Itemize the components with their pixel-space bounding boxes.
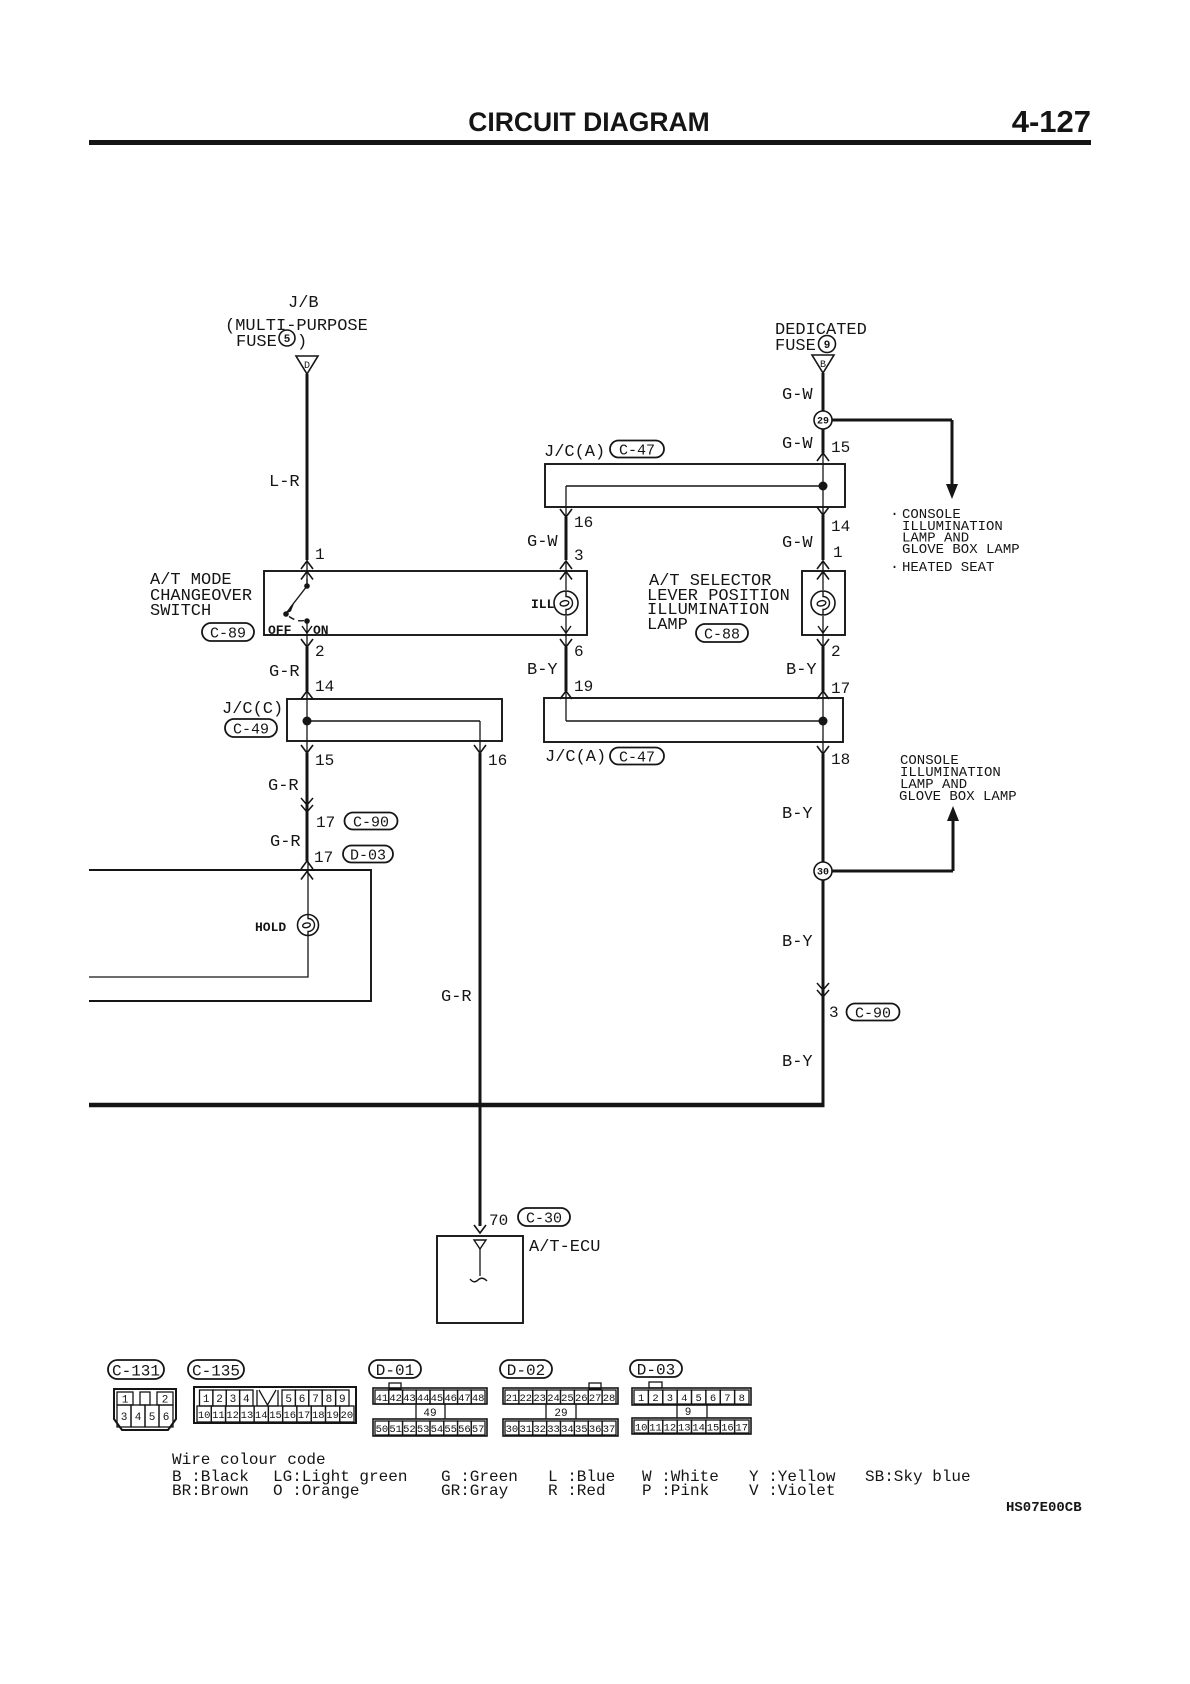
svg-text:4: 4 <box>135 1412 142 1424</box>
junction dot in lower J/C(A) <box>819 717 828 726</box>
svg-text:HEATED SEAT: HEATED SEAT <box>902 560 994 576</box>
svg-text:·: · <box>890 506 899 523</box>
svg-text:16: 16 <box>721 1422 734 1434</box>
svg-text:45: 45 <box>431 1393 444 1405</box>
svg-text:GLOVE BOX LAMP: GLOVE BOX LAMP <box>902 542 1020 558</box>
svg-text:17: 17 <box>298 1410 311 1422</box>
svg-text:34: 34 <box>561 1424 574 1436</box>
svg-text:35: 35 <box>575 1424 588 1436</box>
inline connector marks C-90/D-03 on G-R wire <box>301 798 313 805</box>
svg-text:51: 51 <box>389 1424 402 1436</box>
svg-text:20: 20 <box>341 1410 354 1422</box>
wire G-R long run to A/T-ECU pin 70 <box>479 753 482 1226</box>
svg-text:42: 42 <box>389 1393 402 1405</box>
connector label D-02 <box>500 1360 552 1378</box>
component box with HOLD lamp (partial) <box>89 870 371 1001</box>
lamp bulb C-88 <box>811 591 835 615</box>
svg-text:1: 1 <box>315 546 325 564</box>
svg-text:7: 7 <box>724 1393 730 1405</box>
svg-text:6: 6 <box>163 1412 170 1424</box>
ECU box A/T-ECU <box>437 1236 523 1323</box>
svg-text:10: 10 <box>198 1410 211 1422</box>
wire B-Y from pin 18 to junction 30 <box>822 754 825 862</box>
svg-text:6: 6 <box>299 1394 306 1406</box>
svg-text:B: B <box>820 360 826 371</box>
svg-text:CIRCUIT DIAGRAM: CIRCUIT DIAGRAM <box>468 107 709 137</box>
svg-text:C-90: C-90 <box>855 1005 891 1022</box>
svg-text:14: 14 <box>315 678 334 696</box>
svg-text:D-01: D-01 <box>376 1362 414 1380</box>
fuse tap triangle D <box>296 356 318 374</box>
svg-text:V :Violet: V :Violet <box>749 1482 835 1500</box>
svg-text:17: 17 <box>831 680 850 698</box>
connector C-131 body <box>114 1389 176 1430</box>
svg-text:G-R: G-R <box>269 663 300 682</box>
junction circle 30 <box>814 862 832 880</box>
svg-text:C-135: C-135 <box>192 1362 240 1380</box>
svg-text:26: 26 <box>575 1393 588 1405</box>
svg-text:8: 8 <box>326 1394 333 1406</box>
svg-text:16: 16 <box>488 752 507 770</box>
svg-text:49: 49 <box>423 1408 436 1420</box>
svg-text:21: 21 <box>506 1393 519 1405</box>
lamp ILL bulb <box>554 591 578 615</box>
circled number 9 <box>819 336 836 353</box>
svg-text:FUSE: FUSE <box>236 333 277 352</box>
svg-text:J/C(A): J/C(A) <box>544 443 605 462</box>
svg-text:B-Y: B-Y <box>782 933 813 952</box>
svg-text:16: 16 <box>283 1410 296 1422</box>
pin 70 of C-30 at A/T-ECU <box>474 1225 486 1233</box>
connector label D-01 <box>369 1360 421 1378</box>
connector label C-89 <box>202 623 254 641</box>
svg-text:16: 16 <box>574 514 593 532</box>
svg-text:43: 43 <box>403 1393 416 1405</box>
svg-text:56: 56 <box>458 1424 471 1436</box>
svg-text:23: 23 <box>533 1393 546 1405</box>
svg-text:C-88: C-88 <box>704 626 740 643</box>
svg-text:10: 10 <box>635 1422 648 1434</box>
junction circle 29 <box>814 411 832 429</box>
svg-text:LAMP: LAMP <box>647 616 688 635</box>
wire thick bus line to left edge <box>89 1103 825 1108</box>
svg-text:C-47: C-47 <box>619 749 655 766</box>
svg-text:11: 11 <box>212 1410 225 1422</box>
svg-text:17: 17 <box>736 1422 749 1434</box>
svg-text:3: 3 <box>574 547 584 565</box>
pin 15 of C-49 <box>301 745 313 753</box>
connector D-01 body <box>389 1383 401 1389</box>
switch contacts and blade <box>306 579 308 586</box>
svg-text:13: 13 <box>678 1422 691 1434</box>
pin 2 of C-89 <box>301 639 313 647</box>
svg-text:9: 9 <box>824 340 831 352</box>
svg-text:G-R: G-R <box>270 833 301 852</box>
svg-text:C-49: C-49 <box>233 721 269 738</box>
svg-text:15: 15 <box>315 752 334 770</box>
svg-text:12: 12 <box>664 1422 677 1434</box>
wire G-R switch pin2 to J/C(C) pin 14 <box>306 647 309 691</box>
svg-text:FUSE: FUSE <box>775 337 816 356</box>
connector label D-03 <box>630 1360 682 1377</box>
svg-text:31: 31 <box>520 1424 533 1436</box>
pin 16 of C-49 <box>474 745 486 753</box>
svg-text:15: 15 <box>707 1422 720 1434</box>
svg-text:47: 47 <box>458 1393 471 1405</box>
lamp A/T SELECTOR LEVER POSITION ILLUMINATION LAMP (C-88) box <box>802 571 845 635</box>
svg-text:53: 53 <box>417 1424 430 1436</box>
svg-text:46: 46 <box>444 1393 457 1405</box>
svg-text:GLOVE BOX LAMP: GLOVE BOX LAMP <box>899 789 1017 805</box>
svg-text:27: 27 <box>589 1393 602 1405</box>
svg-text:17: 17 <box>316 814 335 832</box>
wire L-R from fuse D to switch pin 1 <box>306 374 309 560</box>
svg-text:3: 3 <box>667 1393 673 1405</box>
pin 14 of C-47 <box>817 507 829 515</box>
svg-text:70: 70 <box>489 1212 508 1230</box>
svg-text:18: 18 <box>831 751 850 769</box>
wire G-R down from J/C(C) pin 15 <box>306 753 309 861</box>
fuse tap triangle B <box>812 355 834 373</box>
wire B-Y from 30 down to bus <box>822 880 825 1105</box>
svg-text:15: 15 <box>831 439 850 457</box>
svg-text:HOLD: HOLD <box>255 920 286 935</box>
connector label C-47 <box>610 441 664 458</box>
svg-text:22: 22 <box>520 1393 533 1405</box>
svg-text:C-89: C-89 <box>210 625 246 642</box>
svg-text:30: 30 <box>506 1424 519 1436</box>
svg-text:GR:Gray: GR:Gray <box>441 1482 509 1500</box>
svg-text:4-127: 4-127 <box>1012 104 1091 139</box>
svg-text:14: 14 <box>255 1410 268 1422</box>
svg-text:B-Y: B-Y <box>782 805 813 824</box>
svg-text:1: 1 <box>203 1394 210 1406</box>
svg-text:A/T-ECU: A/T-ECU <box>529 1238 600 1257</box>
svg-text:C-90: C-90 <box>353 814 389 831</box>
lamp HOLD bulb <box>298 915 319 936</box>
svg-text:J/C(A): J/C(A) <box>545 748 606 767</box>
svg-text:): ) <box>297 333 307 352</box>
svg-text:G-W: G-W <box>527 533 558 552</box>
svg-text:29: 29 <box>554 1408 567 1420</box>
connector C-135 body <box>194 1387 356 1423</box>
svg-text:9: 9 <box>339 1394 346 1406</box>
svg-text:4: 4 <box>243 1394 250 1406</box>
wire B-Y ILL lamp to J/C(A) pin 19 <box>565 647 568 691</box>
svg-text:C-47: C-47 <box>619 442 655 459</box>
svg-text:5: 5 <box>284 334 291 346</box>
svg-text:G-R: G-R <box>441 988 472 1007</box>
pin 16 of C-47 <box>560 509 572 517</box>
svg-text:P :Pink: P :Pink <box>642 1482 709 1500</box>
svg-text:54: 54 <box>431 1424 444 1436</box>
svg-text:5: 5 <box>149 1412 156 1424</box>
svg-text:9: 9 <box>685 1407 692 1419</box>
svg-text:12: 12 <box>226 1410 239 1422</box>
svg-text:33: 33 <box>547 1424 560 1436</box>
svg-text:55: 55 <box>444 1424 457 1436</box>
connector label C-131 <box>108 1360 164 1379</box>
svg-text:BR:Brown: BR:Brown <box>172 1482 249 1500</box>
wire G-W to A/T selector lamp pin 1 <box>822 515 825 560</box>
svg-text:30: 30 <box>817 868 829 879</box>
svg-text:29: 29 <box>817 417 829 428</box>
svg-text:2: 2 <box>315 643 325 661</box>
junction block J/C(A) (C-47) lower box <box>544 698 843 742</box>
svg-text:7: 7 <box>312 1394 319 1406</box>
svg-text:1: 1 <box>833 544 843 562</box>
svg-text:14: 14 <box>831 518 850 536</box>
svg-text:19: 19 <box>574 678 593 696</box>
svg-text:11: 11 <box>649 1422 662 1434</box>
svg-text:4: 4 <box>681 1393 687 1405</box>
svg-text:G-W: G-W <box>782 435 813 454</box>
svg-text:44: 44 <box>417 1393 430 1405</box>
svg-text:52: 52 <box>403 1424 416 1436</box>
inline connector mark C-90 pin 3 <box>817 983 829 990</box>
connector label C-88 <box>696 624 748 642</box>
svg-text:D-03: D-03 <box>350 847 386 864</box>
connector D-03 body <box>649 1382 662 1388</box>
wire branch from 30 to console note arrow <box>832 870 953 873</box>
svg-text:15: 15 <box>269 1410 282 1422</box>
svg-text:19: 19 <box>326 1410 339 1422</box>
svg-text:B-Y: B-Y <box>782 1053 813 1072</box>
svg-text:D-03: D-03 <box>637 1361 675 1379</box>
junction dot in J/C(C) <box>303 717 312 726</box>
wire from ON contact to pin 2 <box>306 621 308 647</box>
svg-text:6: 6 <box>574 643 584 661</box>
svg-text:J/C(C): J/C(C) <box>222 700 283 719</box>
svg-text:D: D <box>304 361 310 372</box>
svg-text:·: · <box>890 559 899 576</box>
svg-text:32: 32 <box>533 1424 546 1436</box>
svg-text:SWITCH: SWITCH <box>150 602 211 621</box>
switch A/T MODE CHANGEOVER SWITCH (C-89) box <box>264 571 587 635</box>
wire G-W from fuse B to junction 29 <box>822 373 825 411</box>
svg-text:14: 14 <box>692 1422 705 1434</box>
svg-text:D-02: D-02 <box>507 1362 545 1380</box>
svg-text:SB:Sky blue: SB:Sky blue <box>865 1468 971 1486</box>
pin 2 of C-88 <box>817 639 829 647</box>
svg-text:2: 2 <box>831 643 841 661</box>
svg-text:5: 5 <box>696 1393 702 1405</box>
svg-text:24: 24 <box>547 1393 560 1405</box>
svg-text:17: 17 <box>314 849 333 867</box>
wire B-Y C-88 lamp to J/C(A) pin 17 <box>822 647 825 691</box>
svg-text:25: 25 <box>561 1393 574 1405</box>
circled number 5 <box>279 330 295 346</box>
svg-text:57: 57 <box>472 1424 485 1436</box>
svg-text:HS07E00CB: HS07E00CB <box>1006 1500 1082 1516</box>
svg-text:C-30: C-30 <box>526 1210 562 1227</box>
wire G-W from 29 to J/C(A) pin 15 <box>822 429 825 453</box>
pin 18 of C-47 <box>817 746 829 754</box>
connector label C-49 <box>225 719 277 737</box>
svg-text:G-W: G-W <box>782 534 813 553</box>
svg-text:41: 41 <box>376 1393 389 1405</box>
connector D-02 body <box>589 1383 601 1389</box>
svg-text:Wire colour code: Wire colour code <box>172 1451 326 1469</box>
pin 6 of ILL lamp <box>560 639 572 647</box>
internal bus of upper J/C(A) <box>822 453 824 515</box>
wire branch from 29 to console/heated-seat arrow <box>832 419 952 422</box>
ECU internal input symbol <box>474 1240 486 1249</box>
internal bus of J/C(C) <box>306 691 308 753</box>
svg-text:28: 28 <box>603 1393 616 1405</box>
svg-text:ON: ON <box>313 623 329 638</box>
svg-text:50: 50 <box>376 1424 389 1436</box>
wire G-W to ILL lamp pin 3 <box>565 517 568 560</box>
svg-text:13: 13 <box>241 1410 254 1422</box>
connector label C-47 lower <box>610 748 664 765</box>
junction block J/C(A) (C-47) upper box <box>545 464 845 507</box>
svg-text:2: 2 <box>216 1394 223 1406</box>
svg-text:ILL: ILL <box>531 597 555 612</box>
header rule <box>89 140 1091 145</box>
svg-text:B-Y: B-Y <box>786 661 817 680</box>
svg-text:B-Y: B-Y <box>527 661 558 680</box>
svg-text:R :Red: R :Red <box>548 1482 606 1500</box>
svg-text:8: 8 <box>739 1393 745 1405</box>
svg-text:1: 1 <box>638 1393 644 1405</box>
svg-text:G-W: G-W <box>782 386 813 405</box>
svg-text:J/B: J/B <box>288 294 319 313</box>
svg-text:C-131: C-131 <box>112 1362 160 1380</box>
svg-text:G-R: G-R <box>268 777 299 796</box>
keying feature of C-135 <box>257 1390 278 1406</box>
svg-text:OFF: OFF <box>268 623 292 638</box>
svg-text:2: 2 <box>652 1393 658 1405</box>
svg-text:48: 48 <box>472 1393 485 1405</box>
svg-text:3: 3 <box>121 1412 128 1424</box>
svg-text:3: 3 <box>829 1004 839 1022</box>
junction dot in upper J/C(A) <box>819 482 828 491</box>
svg-text:O :Orange: O :Orange <box>273 1482 359 1500</box>
wire from HOLD lamp to left edge <box>89 936 308 977</box>
svg-text:36: 36 <box>589 1424 602 1436</box>
svg-text:37: 37 <box>603 1424 616 1436</box>
connector label C-135 <box>188 1360 244 1379</box>
junction block J/C(C) (C-49) box <box>287 699 502 741</box>
svg-text:5: 5 <box>285 1394 292 1406</box>
internal bus of lower J/C(A) <box>565 691 567 721</box>
svg-text:18: 18 <box>312 1410 325 1422</box>
svg-text:3: 3 <box>230 1394 237 1406</box>
svg-text:L-R: L-R <box>269 473 300 492</box>
svg-text:6: 6 <box>710 1393 716 1405</box>
